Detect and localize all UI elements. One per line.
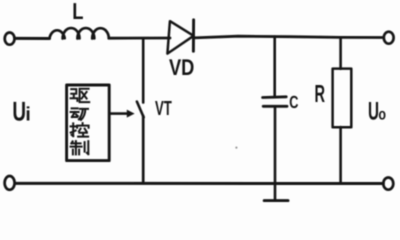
wire: inductor to diode (junction with VT branch at x=143.5)	[109, 37, 170, 40]
resistor R body	[333, 69, 352, 128]
wire: VT branch from top rail	[142, 39, 145, 103]
svg-text:L: L	[72, 0, 83, 24]
stray scan speck	[235, 147, 237, 149]
drive-control text 驱动控制 (drawn glyphs)	[71, 89, 90, 155]
svg-text:U: U	[12, 97, 26, 127]
wire: diode cathode to output terminal (junctions at C x=274.7, R x=340.6)	[194, 36, 384, 38]
resistor R lead from top rail	[339, 37, 342, 68]
svg-text:o: o	[378, 106, 386, 123]
terminal: output top-right	[384, 32, 394, 44]
capacitor C lower lead (crosses bottom rail)	[274, 107, 277, 200]
terminal: input top-left	[5, 33, 15, 45]
gate drive arrowhead	[127, 110, 135, 118]
capacitor C lead from top rail	[273, 37, 276, 97]
node label Ui	[12, 97, 30, 127]
svg-text:U: U	[368, 98, 379, 126]
terminal: bottom-left	[5, 176, 15, 190]
switch VT blade	[137, 102, 144, 118]
drive-control box	[67, 85, 110, 161]
svg-text:i: i	[25, 103, 30, 125]
svg-text:VT: VT	[155, 98, 172, 120]
stub bar below bottom rail	[264, 199, 288, 202]
glyph 控	[71, 123, 89, 137]
wire: input terminal to inductor	[15, 37, 50, 40]
gate drive arrow wire	[110, 112, 129, 115]
capacitor C plates	[263, 95, 287, 98]
glyph 制	[71, 141, 89, 154]
wire: VT to bottom rail	[142, 116, 145, 183]
wire: bottom rail	[15, 182, 383, 185]
terminal: bottom-right	[383, 178, 393, 190]
svg-text:C: C	[289, 92, 298, 112]
glyph 驱	[71, 89, 90, 102]
svg-text:R: R	[315, 81, 326, 108]
inductor L	[50, 28, 109, 38]
node label Uo	[368, 98, 386, 126]
diode VD	[167, 21, 193, 53]
resistor R lower lead	[339, 127, 342, 183]
svg-text:VD: VD	[169, 54, 194, 80]
glyph 动	[71, 108, 88, 120]
